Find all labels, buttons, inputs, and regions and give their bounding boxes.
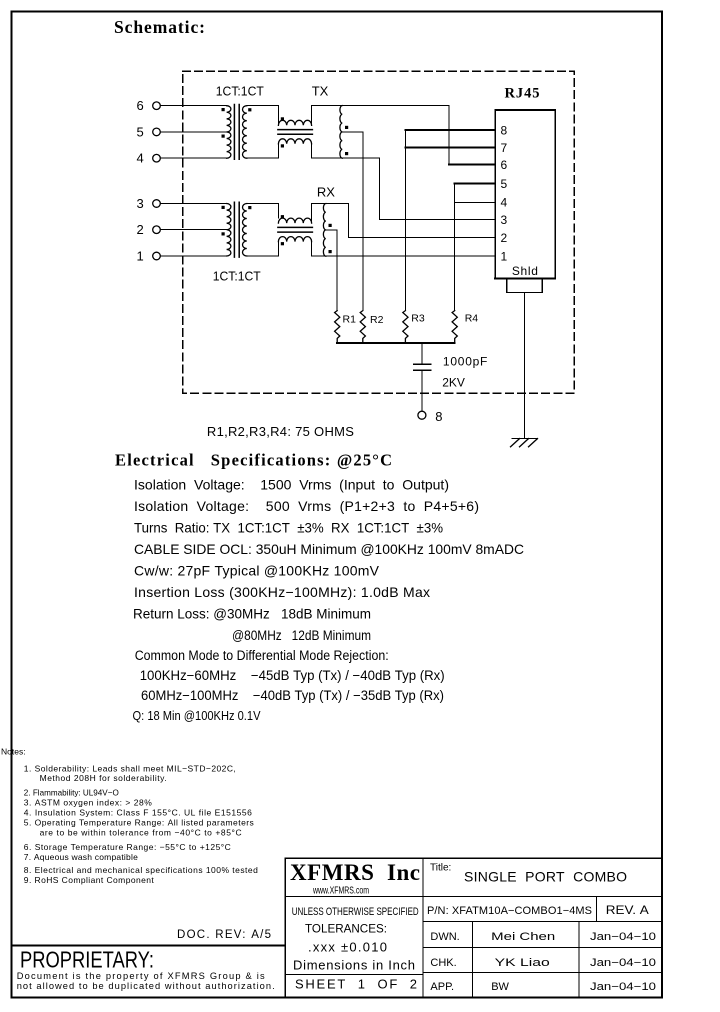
terminal 8 circle <box>418 411 426 419</box>
svg-text:DWN.: DWN. <box>430 931 459 943</box>
wire into pin 5 <box>455 183 496 185</box>
TX choke bottom winding <box>278 139 311 144</box>
wire T2 bottom to choke <box>247 242 279 256</box>
svg-text:8. Electrical and mechanical s: 8. Electrical and mechanical specificati… <box>24 865 258 875</box>
T1 secondary dot <box>248 108 251 111</box>
svg-text:APP.: APP. <box>430 981 454 993</box>
svg-text:TX: TX <box>312 84 329 99</box>
svg-text:Notes:: Notes: <box>1 747 26 757</box>
TX choke core <box>278 130 313 135</box>
divider REV cell <box>595 897 597 922</box>
shield wire down <box>524 292 526 438</box>
RX choke bottom winding <box>278 237 311 242</box>
svg-text:5: 5 <box>501 177 508 191</box>
earth ground hatch 2 <box>520 439 529 447</box>
svg-text:2: 2 <box>501 231 508 245</box>
wire pins 5-4 junction to R4 <box>454 184 456 311</box>
svg-text:Dimensions in Inch: Dimensions in Inch <box>293 958 415 973</box>
svg-text:Electrical Specifications: @: Electrical Specifications: @25°C <box>115 451 392 470</box>
svg-text:Jan−04−10: Jan−04−10 <box>590 981 656 993</box>
transformer T2 secondary winding <box>243 204 247 257</box>
TX bottom rail <box>312 157 380 159</box>
RX choke core <box>278 227 313 232</box>
svg-text:60MHz−100MHz −40dB Typ (Tx): 60MHz−100MHz −40dB Typ (Tx) / −35dB Typ … <box>141 688 444 703</box>
TX output dot upper <box>345 126 348 129</box>
svg-text:SHEET 1 OF 2: SHEET 1 OF 2 <box>295 977 417 992</box>
svg-text:Turns Ratio: TX 1CT:1CT ±3%: Turns Ratio: TX 1CT:1CT ±3% RX 1CT:1CT ±… <box>134 520 443 536</box>
title block line under company row <box>285 896 662 898</box>
svg-text:CHK.: CHK. <box>430 957 456 969</box>
wire choke bottom right down to rail <box>311 144 313 158</box>
RJ45 body bottom heavy edge <box>495 278 555 280</box>
pin 6 terminal <box>153 102 161 110</box>
pin 5 terminal <box>153 128 161 136</box>
wire T2 top to choke <box>247 204 279 219</box>
svg-text:R3: R3 <box>411 313 425 325</box>
wire TX bottom to pin3 <box>380 158 496 220</box>
capacitor C1 bottom plate <box>414 369 431 371</box>
RJ45 connector body <box>495 110 555 279</box>
wire pin6 drop <box>448 106 450 165</box>
svg-text:are to be within tolerance fro: are to be within tolerance from −40°C to… <box>40 828 242 838</box>
svg-text:BW: BW <box>491 981 509 993</box>
svg-text:CABLE SIDE OCL: 350uH Minimum: CABLE SIDE OCL: 350uH Minimum @100KHz 10… <box>134 541 524 557</box>
svg-text:1CT:1CT: 1CT:1CT <box>216 85 264 99</box>
pin 3 terminal <box>153 200 161 208</box>
RX choke top dot <box>281 215 284 218</box>
svg-text:Q: 18 Min @100KHz 0.1V: Q: 18 Min @100KHz 0.1V <box>133 708 261 723</box>
wire RX choke bottom right down <box>311 242 313 256</box>
transformer T1 primary winding <box>227 106 231 158</box>
svg-text:5. Operating Temperature Range: 5. Operating Temperature Range: All list… <box>24 818 254 828</box>
svg-text:Document is the property of XF: Document is the property of XFMRS Group … <box>17 971 265 981</box>
svg-text:.xxx ±0.010: .xxx ±0.010 <box>308 940 387 955</box>
transformer T2 primary winding <box>227 204 231 256</box>
svg-text:UNLESS OTHERWISE SPECIFIED: UNLESS OTHERWISE SPECIFIED <box>292 906 419 918</box>
svg-text:4: 4 <box>137 151 144 166</box>
RX top rail <box>312 203 349 205</box>
T1 primary dot upper <box>222 108 225 111</box>
svg-text:4. Insulation System: Class F: 4. Insulation System: Class F 155°C. UL … <box>24 808 252 818</box>
svg-text:PROPRIETARY:: PROPRIETARY: <box>20 947 154 973</box>
svg-text:7. Aqueous wash compatible: 7. Aqueous wash compatible <box>24 852 138 862</box>
wire capacitor to terminal 8 <box>421 371 423 411</box>
wire pin5 to T1 center tap <box>160 131 226 133</box>
wire into pin 6 <box>449 163 495 165</box>
svg-text:Common Mode to Differential Mo: Common Mode to Differential Mode Rejecti… <box>135 648 389 663</box>
wire T1 top to choke <box>247 106 279 121</box>
svg-text:Insertion Loss (300KHz−100MHz): Insertion Loss (300KHz−100MHz): 1.0dB Ma… <box>134 584 430 600</box>
wire pin2 to T2 center tap <box>160 229 226 231</box>
svg-text:8: 8 <box>501 123 508 137</box>
svg-text:R4: R4 <box>465 313 479 325</box>
T2 core <box>234 202 239 257</box>
TX tap wire to R2 <box>342 132 363 311</box>
divider names column <box>472 922 474 998</box>
svg-text:REV. A: REV. A <box>606 903 649 917</box>
svg-text:2. Flammability: UL94V−O: 2. Flammability: UL94V−O <box>24 788 119 798</box>
svg-text:8: 8 <box>435 409 442 424</box>
pin 4 terminal <box>153 154 161 162</box>
TX choke top winding <box>278 120 311 125</box>
wire pin3 to T2 <box>160 203 226 205</box>
resistor R1 <box>335 311 340 344</box>
svg-text:1: 1 <box>137 249 144 264</box>
svg-text:P/N: XFATM10A−COMBO1−4MS: P/N: XFATM10A−COMBO1−4MS <box>427 905 592 917</box>
wire RX top to pin2 <box>349 204 496 238</box>
svg-text:Isolation Voltage: 500 Vr: Isolation Voltage: 500 Vrms (P1+2+3 to P… <box>134 498 479 514</box>
svg-text:RX: RX <box>317 184 335 199</box>
svg-text:RJ45: RJ45 <box>505 86 540 102</box>
T2 secondary dot <box>248 206 251 209</box>
svg-text:3. ASTM oxygen index: > 28%: 3. ASTM oxygen index: > 28% <box>24 798 152 808</box>
wire pin1 to T2 <box>160 255 226 257</box>
TX output dot lower <box>345 152 348 155</box>
wire into pin 4 <box>455 201 496 203</box>
title block frame <box>285 858 662 997</box>
RJ45 shield tab <box>507 279 543 293</box>
RX output winding <box>323 204 325 257</box>
wire RX choke top right up <box>311 204 313 224</box>
svg-text:R1,R2,R3,R4: 75 OHMS: R1,R2,R3,R4: 75 OHMS <box>207 424 354 439</box>
svg-text:4: 4 <box>501 196 508 210</box>
title block divider company/title <box>422 858 424 997</box>
svg-text:R2: R2 <box>370 314 384 326</box>
proprietary box <box>12 946 286 998</box>
TX output winding <box>340 106 342 159</box>
pin 1 terminal <box>153 252 161 260</box>
earth ground hatch 1 <box>511 439 520 447</box>
title block line above SHEET cell <box>285 973 423 975</box>
wire pin6 to T1 <box>160 105 226 107</box>
svg-text:3: 3 <box>137 196 144 211</box>
svg-text:6: 6 <box>137 98 144 113</box>
svg-text:2: 2 <box>137 222 144 237</box>
svg-text:1: 1 <box>501 250 508 264</box>
svg-text:Jan−04−10: Jan−04−10 <box>590 957 656 969</box>
svg-text:Mei Chen: Mei Chen <box>491 931 555 943</box>
T1 core <box>234 105 239 160</box>
title block line under PN row <box>423 921 662 923</box>
svg-text:Shld: Shld <box>512 264 538 278</box>
transformer T1 secondary winding <box>243 106 247 159</box>
svg-text:2KV: 2KV <box>442 375 465 389</box>
resistor R3 <box>403 311 408 344</box>
RX choke top winding <box>278 218 311 223</box>
svg-text:TOLERANCES:: TOLERANCES: <box>305 922 387 936</box>
TX top rail to pin6 drop <box>312 105 450 107</box>
svg-text:1000pF: 1000pF <box>443 355 488 369</box>
svg-text:Isolation Voltage: 1500 V: Isolation Voltage: 1500 Vrms (Input to O… <box>134 477 449 493</box>
T1 primary dot lower <box>222 135 225 138</box>
wire rail to capacitor <box>421 343 423 363</box>
T2 primary dot upper <box>222 206 225 209</box>
svg-text:XFMRS Inc: XFMRS Inc <box>290 860 420 885</box>
resistor common rail <box>337 342 455 344</box>
RX output dot upper <box>329 224 332 227</box>
choke top wind left stub <box>277 118 279 125</box>
svg-text:SINGLE PORT COMBO: SINGLE PORT COMBO <box>464 869 627 885</box>
svg-text:7: 7 <box>501 141 508 155</box>
svg-text:DOC. REV: A/5: DOC. REV: A/5 <box>177 929 271 941</box>
wire into pin 8 <box>405 129 495 131</box>
svg-text:3: 3 <box>501 213 508 227</box>
svg-text:Method 208H for solderability.: Method 208H for solderability. <box>40 773 167 783</box>
TX choke bottom dot <box>281 144 284 147</box>
svg-text:@80MHz 12dB Minimum: @80MHz 12dB Minimum <box>232 628 371 643</box>
RX tap wire to R1 <box>326 230 337 311</box>
svg-text:6: 6 <box>501 158 508 172</box>
TX choke top dot <box>281 117 284 120</box>
T2 primary dot lower <box>222 232 225 235</box>
RX output dot lower <box>329 250 332 253</box>
divider dates column <box>578 922 580 998</box>
earth ground hatch 3 <box>529 439 538 447</box>
resistor R4 <box>452 311 457 344</box>
resistor R2 <box>360 311 365 344</box>
svg-text:R1: R1 <box>343 314 357 326</box>
svg-text:6. Storage Temperature Range:: 6. Storage Temperature Range: −55°C to +… <box>24 842 231 852</box>
svg-text:www.XFMRS.com: www.XFMRS.com <box>312 886 369 897</box>
wire choke top right up to rail <box>311 106 313 126</box>
svg-text:100KHz−60MHz −45dB Typ (Tx): 100KHz−60MHz −45dB Typ (Tx) / −40dB Typ … <box>140 668 445 683</box>
capacitor C1 top plate <box>414 363 431 365</box>
svg-text:1CT:1CT: 1CT:1CT <box>213 270 261 284</box>
title block line under DWN row <box>423 946 662 948</box>
svg-text:5: 5 <box>137 124 144 139</box>
RX choke bottom dot <box>281 242 284 245</box>
svg-text:Return Loss: @30MHz 18dB Min: Return Loss: @30MHz 18dB Minimum <box>133 606 371 622</box>
svg-text:not allowed to be duplicated w: not allowed to be duplicated without aut… <box>17 981 275 991</box>
schematic dashed boundary <box>183 71 575 393</box>
wire pin4 to T1 <box>160 157 226 159</box>
title block line under CHK row <box>423 972 662 974</box>
wire T1 bottom to choke <box>247 144 279 158</box>
svg-text:9. RoHS Compliant Component: 9. RoHS Compliant Component <box>24 875 155 885</box>
svg-text:Jan−04−10: Jan−04−10 <box>590 931 656 943</box>
svg-text:Title:: Title: <box>430 863 451 874</box>
wire into pin 7 <box>405 147 495 149</box>
svg-text:Schematic:: Schematic: <box>114 17 205 37</box>
svg-text:1. Solderability: Leads shall: 1. Solderability: Leads shall meet MIL−S… <box>24 764 236 774</box>
earth ground bar <box>512 437 537 439</box>
pin 2 terminal <box>153 226 161 234</box>
wire RX bottom to pin1 <box>312 255 496 257</box>
wire pins 8-7 junction to R3 <box>404 130 406 311</box>
svg-text:YK Liao: YK Liao <box>495 957 550 969</box>
svg-text:Cw/w: 27pF Typical @100KHz 100: Cw/w: 27pF Typical @100KHz 100mV <box>134 563 380 579</box>
